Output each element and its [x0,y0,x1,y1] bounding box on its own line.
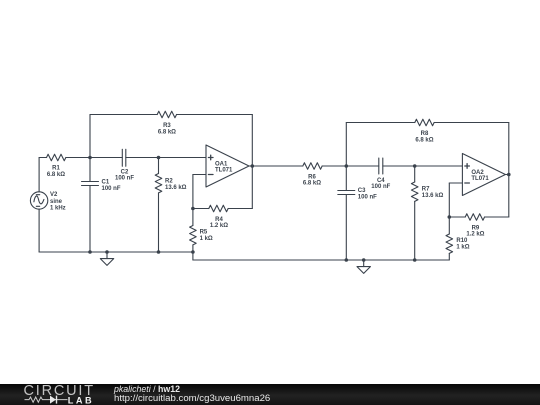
svg-text:100 nF: 100 nF [371,184,390,190]
C1 labels [102,180,121,192]
OA2 minus input wire [449,183,462,217]
feedback wire with R3 [90,115,157,158]
C3 labels [358,188,377,200]
capacitor C3 [338,166,355,260]
ground symbol stage 1 [100,250,113,265]
resistor R2 [155,158,162,253]
voltage source V2 [30,158,47,253]
svg-text:6.8 kΩ: 6.8 kΩ [415,137,433,143]
resistor R8 [415,119,434,126]
V2 labels [50,192,66,211]
resistor R1 [39,154,90,161]
capacitor C1 [82,158,99,253]
feedback wire with R8 [346,123,415,167]
svg-text:sine: sine [50,199,63,205]
svg-text:R5: R5 [200,230,208,236]
svg-text:R9: R9 [472,225,480,231]
R2 labels [165,179,187,191]
svg-text:13.6 kΩ: 13.6 kΩ [165,185,187,191]
svg-text:R7: R7 [422,187,430,193]
OA1 minus input wire [193,175,206,209]
svg-text:1 kΩ: 1 kΩ [456,244,469,250]
wire R8 to OA2 output [434,123,509,175]
svg-text:R6: R6 [308,174,316,180]
svg-text:C1: C1 [102,180,110,186]
R8 labels [415,131,433,143]
svg-text:TL071: TL071 [471,176,489,182]
ground rail stage 1 [39,251,193,253]
svg-text:TL071: TL071 [215,168,233,174]
node D junction [413,164,417,168]
R6 labels [303,174,321,186]
svg-text:R1: R1 [52,166,60,172]
resistor R5 [190,209,197,253]
op-amp OA2 [462,154,505,196]
R3 labels [158,123,176,135]
svg-text:R10: R10 [456,238,468,244]
svg-text:1.2 kΩ: 1.2 kΩ [210,223,228,229]
svg-text:100 nF: 100 nF [115,175,134,181]
R5 labels [200,230,213,242]
CircuitLab logo [24,383,95,405]
svg-text:6.8 kΩ: 6.8 kΩ [303,181,321,187]
lower rail connecting stages [193,252,449,260]
svg-text:OA2: OA2 [471,170,484,176]
svg-text:R8: R8 [421,131,429,137]
resistor R7 [411,166,418,260]
R4 left junction [191,207,195,211]
C4 labels [371,178,390,190]
wire OA1 output to R6 [252,165,302,167]
OA1 labels [215,161,233,173]
C2 labels [115,170,134,182]
svg-text:13.6 kΩ: 13.6 kΩ [422,193,444,199]
node C junction [345,164,349,168]
resistor R9 [449,175,509,221]
svg-text:C3: C3 [358,188,366,194]
svg-text:1.2 kΩ: 1.2 kΩ [466,232,484,238]
R9 left junction [448,215,452,219]
capacitor C2 [90,149,159,166]
R4 labels [210,217,228,229]
R7 labels [422,187,444,199]
R9 labels [466,225,484,237]
OA2 labels [471,170,489,182]
R1 labels [47,166,65,178]
OA1 output node [249,165,252,167]
svg-text:1 kHz: 1 kHz [50,205,66,211]
resistor R6 [303,163,347,170]
svg-text:6.8 kΩ: 6.8 kΩ [47,172,65,178]
credit text [113,384,270,404]
wire node B to op-amp + [159,157,207,159]
svg-text:R3: R3 [163,123,171,129]
svg-text:http://circuitlab.com/cg3uveu6: http://circuitlab.com/cg3uveu6mna26 [114,393,270,404]
OA2 output node [505,174,508,176]
svg-text:LAB: LAB [68,395,94,405]
ground symbol stage 2 [357,258,370,273]
svg-text:OA1: OA1 [215,161,228,167]
wire node D to op-amp 2 + [415,165,463,167]
node A junction [88,156,92,160]
R10 labels [456,238,469,250]
svg-text:V2: V2 [50,192,58,198]
svg-text:6.8 kΩ: 6.8 kΩ [158,129,176,135]
svg-text:100 nF: 100 nF [358,194,377,200]
resistor R4 [193,166,252,212]
resistor R10 [446,217,453,260]
capacitor C4 [346,158,414,174]
resistor R3 [157,111,176,118]
svg-text:R4: R4 [215,217,223,223]
wire R3 to OA1 output [177,115,253,167]
op-amp OA1 [206,145,249,187]
svg-text:R2: R2 [165,179,173,185]
svg-text:100 nF: 100 nF [102,186,121,192]
node B junction [157,156,161,160]
rail 2 junctions [345,258,349,262]
svg-text:1 kΩ: 1 kΩ [200,236,213,242]
